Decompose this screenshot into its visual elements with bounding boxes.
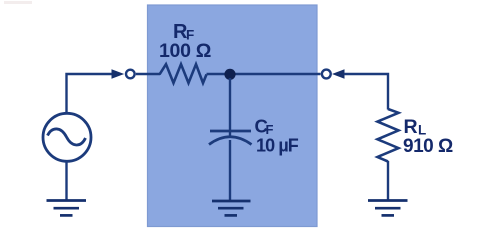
- wire: RL to ground: [387, 161, 389, 200]
- node junction dot: [224, 69, 235, 80]
- arrow into right terminal: [332, 69, 345, 79]
- wire: left corner from source up and right: [67, 74, 112, 114]
- resistor RF: [160, 64, 207, 83]
- resistor RL: [378, 109, 399, 162]
- wire: source to ground: [65, 162, 67, 201]
- wire: terminal to RF: [136, 73, 160, 75]
- svg-text:10 µF: 10 µF: [256, 136, 299, 156]
- label CF: [255, 116, 274, 138]
- ground under capacitor: [212, 201, 251, 215]
- label RL: [404, 116, 427, 138]
- terminal (open circle) right: [322, 70, 331, 79]
- label 10 uF: [256, 136, 299, 156]
- label 910 ohm: [403, 136, 453, 157]
- terminal (open circle) left: [126, 70, 135, 79]
- wire: capacitor to ground: [229, 140, 231, 201]
- svg-text:100 Ω: 100 Ω: [159, 40, 211, 62]
- wire: node down to capacitor: [229, 78, 231, 136]
- ground under RL: [368, 201, 408, 216]
- capacitor CF: [209, 131, 252, 145]
- faint artifact band top-left: [4, 1, 32, 4]
- svg-text:910 Ω: 910 Ω: [403, 136, 453, 157]
- wire: RF to node and on to right terminal: [207, 73, 321, 75]
- label 100 ohm: [159, 40, 211, 62]
- wire: right terminal to RL branch corner: [344, 74, 388, 110]
- label RF: [173, 21, 194, 43]
- ground under source: [47, 201, 87, 216]
- arrow into left terminal: [112, 69, 125, 79]
- svg-text:R: R: [404, 116, 418, 138]
- feedback network shaded region: [148, 5, 318, 227]
- ac source: [43, 113, 91, 161]
